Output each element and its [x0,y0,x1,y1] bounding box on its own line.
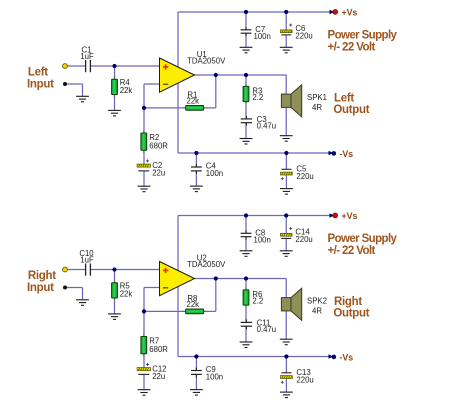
node input/R5 junction (right channel) [112,267,116,271]
svg-text:+Vs: +Vs [342,211,358,221]
ground speaker (left channel) [280,136,293,142]
wire C8 branch (right channel) [245,216,247,234]
node feedback junction (left channel) [142,106,146,110]
wire inverting input (left channel) [144,83,160,85]
ground C7 (left channel) [240,47,253,53]
wire R7 branch (right channel) [143,311,145,336]
wire C4 branch (left channel) [195,153,197,167]
wire -Vs rail (left channel) [178,152,331,154]
svg-text:SPK1: SPK1 [307,93,327,102]
ground R5 (right channel) [108,314,121,320]
svg-text:SPK2: SPK2 [307,296,327,305]
svg-text:2.2: 2.2 [252,93,263,102]
terminal +Vs (left channel) [330,10,335,15]
ground R4 (left channel) [108,110,121,116]
svg-text:220u: 220u [295,235,312,244]
terminal -Vs (left channel) [329,151,334,156]
svg-text:Right: Right [334,296,362,308]
capacitor C9 100n decoupling -Vs (right channel) [191,368,202,378]
wire +Vs rail (right channel) [178,215,333,217]
node input/R4 junction (left channel) [112,64,116,68]
wire op-amp supply vertical (right channel) [177,216,179,357]
wire op-amp output (right channel) [195,278,287,280]
ground C4 (left channel) [190,186,203,192]
svg-text:22u: 22u [152,372,165,381]
node C8 on +Vs rail (right channel) [244,213,248,217]
svg-text:22k: 22k [187,97,200,106]
node C13 on -Vs rail (right channel) [284,354,288,358]
capacitor C6 220u electrolytic +Vs (left channel) [289,24,292,27]
terminal right channel input signal [63,267,68,272]
node C4 on -Vs rail (left channel) [194,151,198,155]
ground C13 (right channel) [280,392,293,398]
svg-text:22k: 22k [187,300,200,309]
capacitor C7 100n decoupling +Vs (left channel) [241,27,252,36]
wire R6/C11 zobel branch (right channel) [245,279,247,290]
svg-text:Output: Output [333,104,369,116]
wire C13 branch (right channel) [285,357,287,373]
node output/zobel junction (right channel) [244,276,248,280]
resistor R4 22k input bias (left channel) [114,76,116,97]
wire op-amp supply vertical (left channel) [177,12,179,153]
speaker SPK1 4R (left channel) [281,94,291,107]
ground C8 (right channel) [240,251,253,256]
resistor R3 2.2 zobel (left channel) [245,83,247,104]
wire speaker branch (right channel) [285,279,287,298]
resistor R8 22k feedback (right channel) [183,310,207,312]
svg-text:100n: 100n [206,373,223,382]
node feedback junction (right channel) [142,309,146,313]
svg-text:0.47u: 0.47u [257,121,277,130]
node output/zobel junction (left channel) [244,73,248,77]
svg-text:680R: 680R [149,142,168,151]
svg-text:0.47u: 0.47u [257,325,277,334]
capacitor C2 22u electrolytic (left channel) [146,159,149,162]
svg-text:100n: 100n [206,169,223,178]
svg-text:680R: 680R [149,345,168,354]
capacitor C8 100n decoupling +Vs (right channel) [241,230,252,239]
capacitor C10 1uF input coupling (right channel) [86,264,91,276]
wire R5 pull-down (right channel) [114,270,116,283]
ground input (right channel) [76,300,89,306]
op-amp U2 TDA2050V (right channel) [160,262,195,296]
wire R1 to output (left channel) [204,107,216,109]
wire feedback node to R8 (right channel) [144,310,186,312]
terminal left channel input ground [63,82,67,86]
svg-text:+Vs: +Vs [342,8,358,18]
op-amp U1 TDA2050V (left channel) [160,58,195,92]
wire input ground stub (right channel) [67,287,83,289]
wire speaker branch (left channel) [285,75,287,94]
wire feedback node to R1 (left channel) [144,107,186,109]
terminal -Vs (right channel) [329,354,334,359]
node output/feedback junction (right channel) [214,276,218,280]
svg-text:22u: 22u [152,168,165,177]
svg-text:1uF: 1uF [80,256,94,265]
svg-text:+/- 22 Volt: +/- 22 Volt [328,245,376,257]
svg-text:Power Supply: Power Supply [328,233,398,245]
svg-text:220u: 220u [296,375,313,384]
wire input to coupling cap (left channel) [67,65,86,67]
resistor R7 680R (right channel) [143,334,145,357]
wire -Vs rail (right channel) [178,356,331,358]
wire C7 branch (left channel) [245,12,247,30]
ground C5 (left channel) [280,189,293,195]
capacitor C4 100n decoupling -Vs (left channel) [191,164,202,174]
svg-text:Left: Left [334,92,354,104]
wire C5 branch (left channel) [285,153,287,169]
wire R4 pull-down (left channel) [114,66,116,79]
capacitor C14 220u electrolytic +Vs (right channel) [289,227,292,230]
node C6 on +Vs rail (left channel) [284,10,288,14]
wire input ground stub (left channel) [67,83,83,85]
wire C14 branch (right channel) [285,216,287,234]
svg-text:Input: Input [27,282,54,294]
svg-text:22k: 22k [120,289,133,298]
svg-text:220u: 220u [296,172,313,181]
capacitor C13 220u electrolytic -Vs (right channel) [281,372,291,374]
wire input to coupling cap (right channel) [67,269,86,271]
wire inverting input (right channel) [144,287,160,289]
svg-text:+/- 22 Volt: +/- 22 Volt [328,42,376,54]
resistor R1 22k feedback (left channel) [183,107,207,109]
ground C14 (right channel) [280,251,293,256]
ground C12 (right channel) [138,390,151,396]
capacitor C1 1uF input coupling (left channel) [86,60,91,72]
svg-text:4R: 4R [312,103,322,112]
ground C3 (left channel) [240,139,253,145]
wire coupling cap to op-amp + input (left channel) [91,65,160,67]
svg-text:-Vs: -Vs [340,353,354,363]
resistor R5 22k input bias (right channel) [114,280,116,301]
terminal right channel input ground [63,286,67,290]
svg-text:TDA2050V: TDA2050V [187,260,226,269]
wire coupling cap to op-amp + input (right channel) [91,269,160,271]
capacitor C3 0.47u zobel (left channel) [241,116,252,126]
svg-text:TDA2050V: TDA2050V [187,57,226,66]
speaker SPK2 4R (right channel) [281,298,291,311]
wire R2 branch (left channel) [143,108,145,133]
svg-text:22k: 22k [120,86,133,95]
node output/feedback junction (left channel) [214,73,218,77]
ground speaker (right channel) [280,339,293,345]
svg-text:Right: Right [28,270,56,282]
svg-text:Left: Left [28,66,48,78]
terminal left channel input signal [63,64,68,69]
wire C6 branch (left channel) [285,12,287,30]
wire R3/C3 zobel branch (left channel) [245,75,247,86]
svg-text:100n: 100n [254,236,271,245]
svg-text:1uF: 1uF [80,52,94,61]
node C5 on -Vs rail (left channel) [284,151,288,155]
node C7 on +Vs rail (left channel) [244,10,248,14]
ground input (left channel) [76,96,89,102]
svg-text:2.2: 2.2 [252,297,263,306]
capacitor C5 220u electrolytic -Vs (left channel) [281,168,291,170]
wire R8 to output (right channel) [204,310,216,312]
node C9 on -Vs rail (right channel) [194,354,198,358]
ground C11 (right channel) [240,342,253,348]
resistor R6 2.2 zobel (right channel) [245,287,247,308]
ground C9 (right channel) [190,390,203,396]
svg-text:4R: 4R [312,306,322,315]
wire C9 branch (right channel) [195,357,197,371]
ground C6 (left channel) [280,47,293,53]
svg-text:-Vs: -Vs [340,149,354,159]
svg-text:Power Supply: Power Supply [328,29,398,41]
wire +Vs rail (left channel) [178,11,333,13]
terminal +Vs (right channel) [330,213,335,218]
capacitor C12 22u electrolytic (right channel) [146,363,149,366]
svg-text:220u: 220u [295,31,312,40]
svg-text:100n: 100n [254,32,271,41]
ground C2 (left channel) [138,186,151,192]
svg-text:Input: Input [27,78,54,90]
capacitor C11 0.47u zobel (right channel) [241,319,252,329]
resistor R2 680R (left channel) [143,130,145,153]
wire op-amp output (left channel) [195,74,287,76]
svg-text:Output: Output [333,308,369,320]
node C14 on +Vs rail (right channel) [284,213,288,217]
